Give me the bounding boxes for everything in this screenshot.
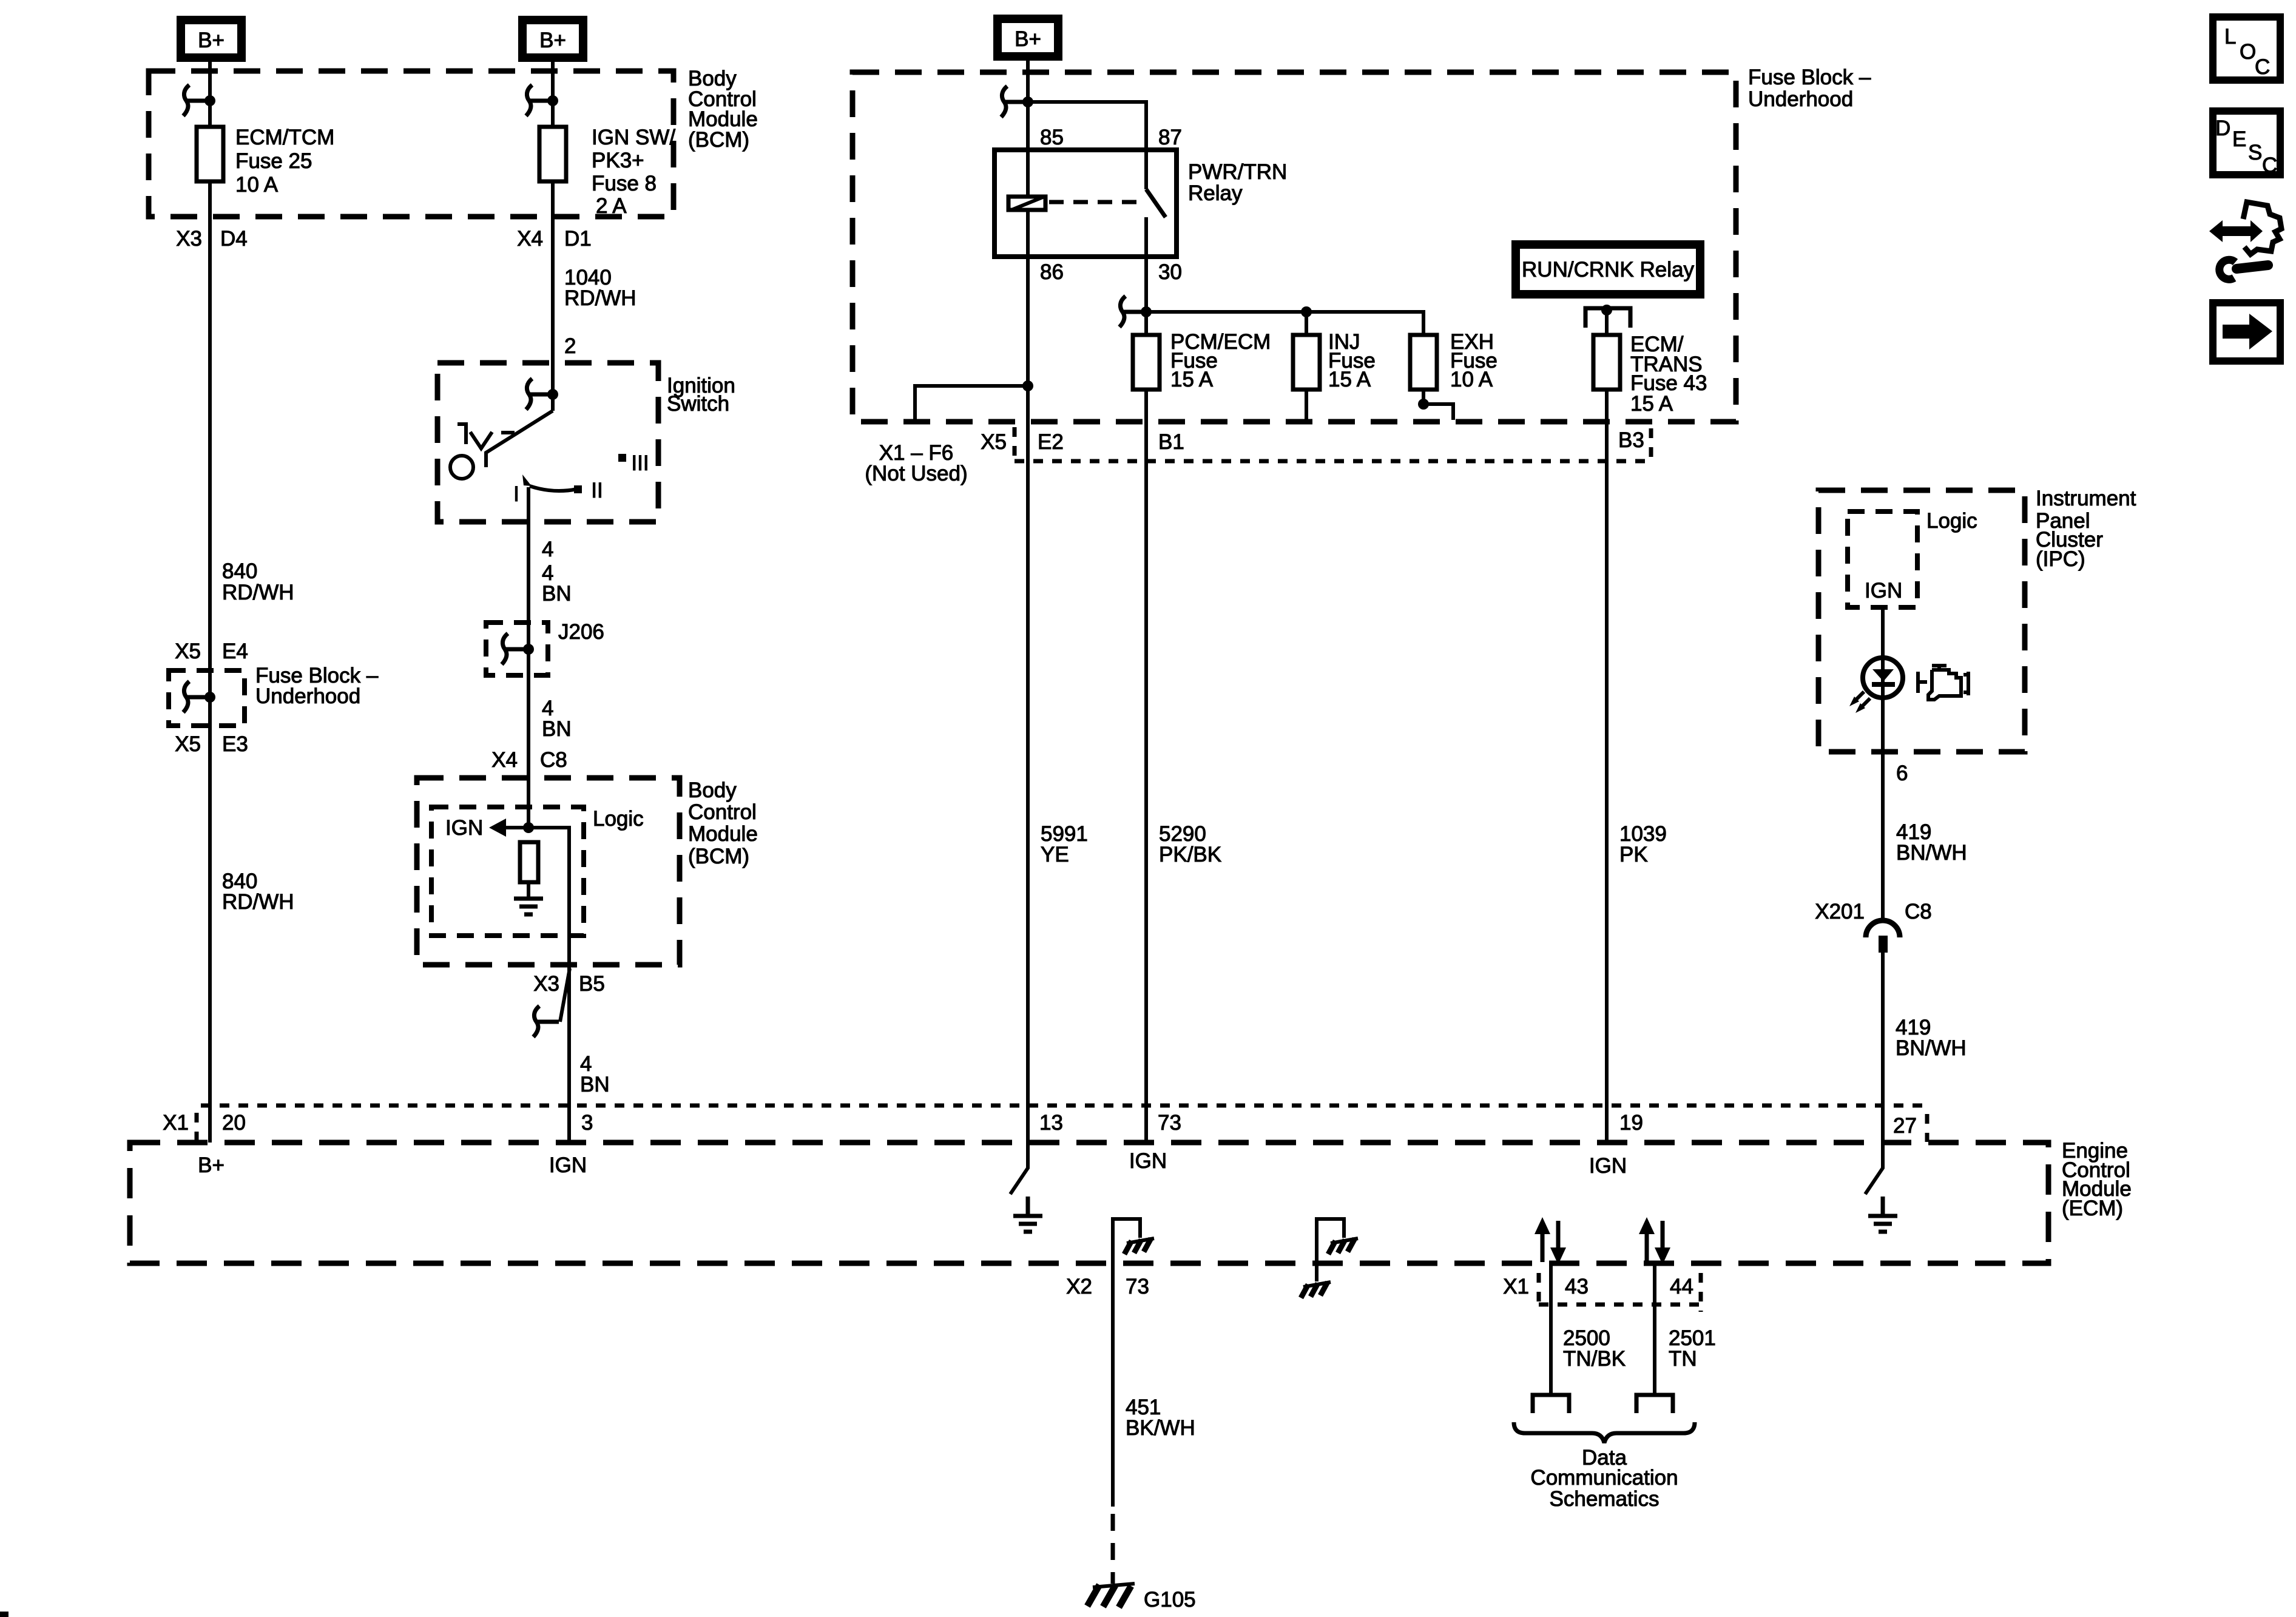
value label INJ Fuse 15 A <box>1328 330 1376 391</box>
svg-text:X5: X5 <box>175 732 201 756</box>
fuse PCM/ECM Fuse 15A <box>1133 335 1160 390</box>
svg-text:III: III <box>631 451 649 475</box>
svg-text:IGN: IGN <box>445 816 483 840</box>
svg-text:2 A: 2 A <box>596 194 627 218</box>
label X1 - F6 (Not Used) <box>865 441 967 485</box>
svg-text:B+: B+ <box>198 29 225 52</box>
pin label X5 E4 <box>175 640 248 663</box>
diagnostic icon (double arrow, connector outline, wrench) <box>2209 202 2281 279</box>
svg-text:IGN SW/: IGN SW/ <box>592 126 675 149</box>
wire: IPC logic through MIL lamp to pin 6 (419 BN/WH) <box>1881 607 1885 920</box>
arrow tick at contact I <box>522 474 532 486</box>
engine (check engine) icon <box>1918 666 1968 700</box>
svg-text:15 A: 15 A <box>1170 368 1214 391</box>
svg-text:IGN: IGN <box>1589 1154 1627 1178</box>
ground at ECM pin 13 <box>1013 1197 1042 1232</box>
junction dot at BCM logic node <box>523 822 534 833</box>
position contact mark III <box>618 454 626 462</box>
ECM internal ground lead (X2-73) <box>1113 1219 1140 1263</box>
wire: serial data circuit 2500 TN/BK <box>1549 1263 1553 1395</box>
svg-text:10 A: 10 A <box>1450 368 1493 391</box>
power feed B+ terminal 1 <box>177 16 246 62</box>
svg-text:43: 43 <box>1565 1275 1589 1298</box>
BCM lower label <box>688 778 758 868</box>
forward arrow icon box <box>2213 303 2280 361</box>
Ignition Switch dashed box <box>437 363 658 522</box>
svg-text:73: 73 <box>1126 1275 1149 1298</box>
relay coil <box>1008 197 1045 210</box>
svg-text:I: I <box>513 482 519 506</box>
pin label X4 C8 <box>491 748 567 772</box>
wire label 4 BN (mid) <box>542 697 572 741</box>
wire: B+ feed to ignition switch (circuit 1040 RD/WH) <box>551 62 555 411</box>
svg-text:X5: X5 <box>175 640 201 663</box>
ignition key symbol <box>458 422 515 448</box>
label PWR/TRN Relay <box>1188 160 1287 205</box>
svg-text:RD/WH: RD/WH <box>222 890 294 914</box>
Fuse Block - Underhood dashed box <box>853 72 1736 422</box>
svg-text:X4: X4 <box>517 227 543 251</box>
svg-text:B3: B3 <box>1618 428 1644 452</box>
svg-text:RD/WH: RD/WH <box>564 286 636 310</box>
svg-text:(Not Used): (Not Used) <box>865 462 967 485</box>
Fuse Block Underhood pass-through dashed box (left) <box>169 670 245 726</box>
wire label 2501 TN <box>1669 1326 1716 1371</box>
svg-text:X1: X1 <box>1503 1275 1529 1298</box>
svg-text:19: 19 <box>1619 1111 1643 1135</box>
ECM internal ground lead (second) <box>1317 1219 1344 1263</box>
label Ignition Switch <box>667 374 735 416</box>
svg-text:Module: Module <box>688 822 758 846</box>
wire: INJ fuse drop <box>1305 312 1308 420</box>
svg-text:(IPC): (IPC) <box>2036 547 2085 571</box>
svg-text:15 A: 15 A <box>1328 368 1371 391</box>
svg-text:Underhood: Underhood <box>1748 87 1853 111</box>
pin label X3 D4 <box>176 227 248 251</box>
svg-text:(ECM): (ECM) <box>2062 1197 2123 1220</box>
IGN arrow <box>498 826 528 829</box>
svg-text:TN/BK: TN/BK <box>1563 1347 1626 1371</box>
junction dot at INJ fuse <box>1301 306 1312 317</box>
pin label X3 B5 <box>533 972 605 996</box>
relay switch blade 87-30 <box>1146 189 1166 217</box>
chassis ground (case) <box>1301 1282 1331 1298</box>
wire: serial data circuit 2501 TN <box>1653 1263 1656 1395</box>
wire label 840 RD/WH (lower) <box>222 869 294 914</box>
connector terminal ring at relay feed <box>1001 86 1027 117</box>
LED cathode bar <box>1872 682 1895 687</box>
value label IGN SW/PK3+ Fuse 8 2 A <box>592 126 675 218</box>
junction dot <box>1141 306 1152 317</box>
svg-text:20: 20 <box>222 1111 246 1135</box>
svg-text:BN/WH: BN/WH <box>1896 1036 1967 1060</box>
pin label X4 D1 <box>517 227 592 251</box>
svg-text:X201: X201 <box>1815 900 1865 923</box>
svg-text:D: D <box>2215 116 2230 140</box>
connector separator dashes <box>197 1113 1927 1142</box>
svg-text:BN: BN <box>580 1073 610 1096</box>
svg-text:10 A: 10 A <box>235 173 279 197</box>
wire: BCM logic node right and down to pin B5 <box>528 828 569 1143</box>
svg-text:B+: B+ <box>539 29 566 52</box>
svg-text:D4: D4 <box>220 227 248 251</box>
LED triangle <box>1872 669 1894 681</box>
svg-text:27: 27 <box>1893 1114 1917 1138</box>
svg-text:44: 44 <box>1670 1275 1693 1298</box>
wire label 5991 YE <box>1041 822 1088 866</box>
chassis ground (internal, X2-73) <box>1124 1238 1154 1254</box>
svg-text:PK: PK <box>1619 843 1648 866</box>
connector row dashed line (underhood X5) <box>1015 459 1649 464</box>
pin label X201 C8 <box>1815 900 1932 923</box>
wire label 451 BK/WH <box>1126 1396 1195 1440</box>
svg-text:E2: E2 <box>1038 430 1064 454</box>
svg-text:87: 87 <box>1158 126 1182 149</box>
ECM internal switch at pin 13 <box>1010 1143 1028 1194</box>
chassis ground (internal, second) <box>1328 1238 1358 1254</box>
ECM internal switch at pin 27 <box>1865 1143 1883 1194</box>
svg-text:X3: X3 <box>176 227 202 251</box>
wire: dashed continuation to G105 <box>1111 1514 1115 1584</box>
svg-text:YE: YE <box>1041 843 1069 866</box>
svg-text:30: 30 <box>1158 260 1182 284</box>
svg-text:J206: J206 <box>558 620 604 644</box>
svg-text:RD/WH: RD/WH <box>222 581 294 604</box>
Body Control Module (BCM) upper dashed box <box>149 71 674 217</box>
svg-text:RUN/CRNK Relay: RUN/CRNK Relay <box>1522 258 1694 282</box>
value label ECM/TCM Fuse 25 10 A <box>235 126 334 197</box>
ignition switch contact arc I-II <box>530 486 577 491</box>
svg-text:85: 85 <box>1040 126 1064 149</box>
svg-text:C8: C8 <box>1905 900 1932 923</box>
wire label 4 BN (upper) <box>542 561 572 606</box>
IPC Logic inner dashed box <box>1848 511 1917 607</box>
ignition lock cylinder circle <box>450 456 473 479</box>
junction dot <box>204 692 215 703</box>
indicator LED (MIL) circle <box>1863 658 1903 698</box>
connector terminal ring at BCM feed (left) <box>183 85 209 116</box>
data link arrows at pin 43 <box>1535 1217 1566 1264</box>
DESC icon box <box>2213 111 2280 177</box>
splice J206 dashed box <box>486 623 548 675</box>
Body Control Module (BCM) lower dashed box <box>417 778 680 965</box>
svg-text:Body: Body <box>688 778 737 802</box>
svg-text:6: 6 <box>1896 761 1908 785</box>
Instrument Panel Cluster dashed box <box>1818 490 2025 752</box>
svg-text:X2: X2 <box>1066 1275 1092 1298</box>
relay linkage (dashed) <box>1049 200 1143 204</box>
svg-text:15 A: 15 A <box>1630 392 1673 416</box>
svg-text:O: O <box>2240 40 2256 64</box>
svg-text:Logic: Logic <box>593 807 644 831</box>
connector row dashed line (bottom X1) <box>1539 1303 1701 1307</box>
svg-text:C: C <box>2262 154 2277 177</box>
label Engine Control Module (ECM) <box>2062 1139 2132 1220</box>
value label PCM/ECM Fuse 15 A <box>1170 330 1271 391</box>
label Fuse Block - Underhood <box>1748 66 1871 111</box>
junction dot <box>547 389 558 400</box>
svg-text:3: 3 <box>581 1111 593 1135</box>
page corner artifact mark <box>0 1612 8 1617</box>
svg-text:B1: B1 <box>1158 430 1184 454</box>
junction dot <box>1601 305 1612 316</box>
svg-text:B+: B+ <box>198 1153 225 1177</box>
wire: ignition switch output circuit 4 BN down to BCM logic <box>527 487 530 828</box>
connector terminal ring on relay output row <box>1119 296 1145 327</box>
ignition switch blade <box>486 411 553 467</box>
label Instrument Panel Cluster (IPC) <box>2036 487 2136 571</box>
PWR/TRN relay box <box>994 150 1177 257</box>
connector stub with terminal ring at X3 B5 <box>560 968 570 1022</box>
ground (BCM internal) <box>514 899 543 914</box>
svg-text:(BCM): (BCM) <box>688 845 749 868</box>
svg-text:BN: BN <box>542 582 572 606</box>
svg-text:PK/BK: PK/BK <box>1159 843 1221 866</box>
fuse ECM/TCM Fuse 25 <box>197 127 223 181</box>
svg-text:86: 86 <box>1040 260 1064 284</box>
value label ECM/TRANS Fuse 43 15 A <box>1630 333 1707 416</box>
connector separator dashes <box>1015 427 1651 461</box>
svg-text:4: 4 <box>542 538 553 561</box>
wire: branch to relay pin 87 <box>1028 102 1146 189</box>
connector row labels X5 E2 B1 B3 <box>981 428 1644 454</box>
svg-text:Fuse Block –: Fuse Block – <box>1748 66 1871 89</box>
wire label 4 BN (lower) <box>580 1052 610 1096</box>
wire: B+ feed down left column to ECM pin 20 (circuits 840 RD/WH) <box>208 62 212 1143</box>
RUN/CRNK Relay callout box <box>1511 240 1704 299</box>
pin label X5 E3 <box>175 732 248 756</box>
svg-text:G105: G105 <box>1144 1588 1196 1612</box>
svg-text:C8: C8 <box>540 748 567 772</box>
svg-text:L: L <box>2224 25 2236 49</box>
wire: fuse feed bus to INJ and EXH fuses <box>1146 312 1423 335</box>
ground at ECM pin 27 <box>1868 1197 1897 1232</box>
svg-text:IGN: IGN <box>1129 1149 1167 1173</box>
BCM label <box>688 67 758 152</box>
svg-text:Fuse 8: Fuse 8 <box>592 172 657 195</box>
svg-text:B5: B5 <box>579 972 605 996</box>
junction dot below EXH fuse <box>1418 399 1429 410</box>
wire: RUN/CRNK relay output through fuse 43 to ECM pin 19 (1039 PK) <box>1605 310 1609 1143</box>
svg-text:E4: E4 <box>222 640 248 663</box>
svg-text:Schematics: Schematics <box>1550 1487 1660 1511</box>
wire label 2500 TN/BK <box>1563 1326 1626 1371</box>
svg-text:Logic: Logic <box>1926 509 1977 533</box>
svg-text:IGN: IGN <box>1865 579 1902 603</box>
connector terminal ring at ignition switch input <box>526 379 552 410</box>
fuse INJ Fuse 15A <box>1293 335 1320 390</box>
power feed B+ terminal 3 <box>993 15 1062 61</box>
wire label 840 RD/WH (upper) <box>222 559 294 604</box>
svg-text:X3: X3 <box>533 972 559 996</box>
off-page connector bracket (2501) <box>1636 1395 1673 1413</box>
ECM case ground stub below box <box>1315 1263 1319 1281</box>
wire: EXH fuse output jog <box>1423 390 1453 420</box>
inline connector X201 (arc and pin) <box>1866 920 1900 937</box>
svg-text:S: S <box>2248 141 2262 164</box>
svg-text:BN: BN <box>542 717 572 741</box>
connector terminal ring at BCM feed (right) <box>526 85 552 116</box>
off-page connector bracket (2500) <box>1533 1395 1569 1413</box>
LOC icon box <box>2213 17 2280 80</box>
svg-text:Instrument: Instrument <box>2036 487 2136 510</box>
wire: stub to X1-F6 (not used) <box>915 386 1028 420</box>
svg-text:Switch: Switch <box>667 392 729 416</box>
resistor (BCM pull-down) <box>520 842 538 882</box>
junction dot <box>204 95 215 106</box>
data link arrows at pin 44 <box>1639 1217 1670 1264</box>
svg-text:PWR/TRN: PWR/TRN <box>1188 160 1287 184</box>
wire label 419 BN/WH (upper) <box>1896 820 1967 865</box>
wire label 419 BN/WH (lower) <box>1896 1016 1967 1060</box>
svg-text:BN/WH: BN/WH <box>1896 841 1967 865</box>
svg-text:E: E <box>2232 127 2246 151</box>
fuse IGN SW/PK3+ Fuse 8 <box>539 127 566 181</box>
svg-text:TN: TN <box>1669 1347 1697 1371</box>
label Data Communication Schematics <box>1530 1446 1678 1511</box>
position contact mark II <box>574 485 582 493</box>
svg-text:Control: Control <box>688 800 757 824</box>
svg-text:X5: X5 <box>981 430 1007 454</box>
wire: B+ down through PWR/TRN relay coil to ECM pin 13 (5991 YE) <box>1026 61 1030 1143</box>
value label EXH Fuse 10 A <box>1450 330 1497 391</box>
svg-text:Underhood: Underhood <box>255 684 360 708</box>
LED emission arrows <box>1849 692 1870 713</box>
svg-text:B+: B+ <box>1015 27 1041 51</box>
svg-text:BK/WH: BK/WH <box>1126 1416 1195 1440</box>
svg-text:E3: E3 <box>222 732 248 756</box>
power feed B+ terminal 2 <box>518 16 587 62</box>
junction dot <box>1022 96 1033 107</box>
wire label 5290 PK/BK <box>1159 822 1221 866</box>
ground G105 <box>1087 1584 1135 1607</box>
junction dot <box>547 95 558 106</box>
svg-text:Communication: Communication <box>1530 1466 1678 1490</box>
svg-text:C: C <box>2255 55 2270 79</box>
wire: ECM X2 pin 73 ground circuit 451 BK/WH <box>1111 1263 1115 1507</box>
connector terminal ring in left fuse block <box>183 681 209 712</box>
svg-text:II: II <box>591 479 603 502</box>
fuse EXH Fuse 10A <box>1410 335 1437 390</box>
connector separator dashes (bottom X1) <box>1539 1273 1701 1312</box>
svg-text:ECM/TCM: ECM/TCM <box>235 126 334 149</box>
ECM connector row dashed line (X1/X2) <box>201 1104 1927 1108</box>
svg-text:X4: X4 <box>491 748 518 772</box>
svg-text:13: 13 <box>1039 1111 1063 1135</box>
relay terminal bracket under RUN/CRNK relay <box>1585 308 1630 328</box>
junction dot on 86 wire <box>1022 380 1033 391</box>
wire label 1040 RD/WH <box>564 266 636 310</box>
svg-text:(BCM): (BCM) <box>688 128 749 152</box>
label Fuse Block - Underhood (left) <box>255 664 379 708</box>
svg-text:2: 2 <box>564 334 576 358</box>
svg-text:73: 73 <box>1158 1111 1181 1135</box>
connector terminal ring at J206 <box>502 633 527 664</box>
wire resistor to ground <box>527 882 530 899</box>
wire label 1039 PK <box>1619 822 1667 866</box>
wire: relay pin 30 down to ECM pin 73 (5290 PK/BK) <box>1144 217 1148 1143</box>
svg-text:X1: X1 <box>163 1111 189 1135</box>
svg-text:Fuse 25: Fuse 25 <box>235 149 312 173</box>
svg-text:IGN: IGN <box>549 1153 587 1177</box>
fuse ECM/TRANS Fuse 43 15A <box>1593 335 1620 390</box>
BCM Logic inner dashed box <box>431 807 584 936</box>
wire: X201 to ECM pin 27 (419 BN/WH) <box>1881 953 1885 1143</box>
brace to Data Communication Schematics <box>1514 1422 1695 1443</box>
svg-text:D1: D1 <box>564 227 592 251</box>
Engine Control Module (ECM) dashed box <box>130 1143 2048 1263</box>
svg-text:840: 840 <box>222 559 257 583</box>
svg-text:PK3+: PK3+ <box>592 149 644 172</box>
junction dot <box>523 644 534 655</box>
svg-text:Relay: Relay <box>1188 181 1243 205</box>
